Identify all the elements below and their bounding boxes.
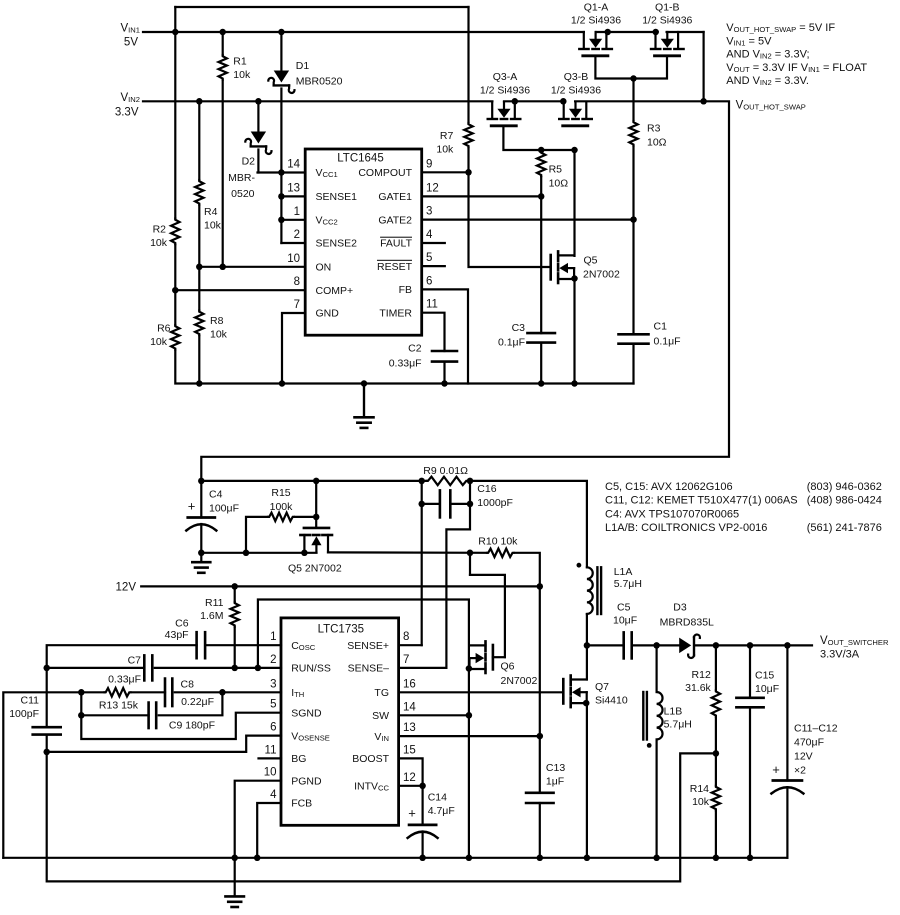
svg-text:Q7: Q7 [595, 681, 609, 693]
svg-text:C5, C15: AVX 12062G106: C5, C15: AVX 12062G106 [605, 481, 733, 493]
svg-text:C5: C5 [617, 602, 631, 614]
svg-text:1/2 Si4936: 1/2 Si4936 [642, 15, 692, 27]
svg-text:2N7002: 2N7002 [583, 269, 620, 281]
svg-text:ON: ON [316, 262, 332, 274]
svg-text:C1: C1 [654, 321, 668, 333]
svg-text:1.6M: 1.6M [200, 610, 223, 622]
svg-text:3.3V: 3.3V [115, 107, 139, 119]
svg-text:16: 16 [403, 678, 416, 690]
svg-text:BG: BG [291, 753, 306, 765]
svg-text:10k: 10k [150, 237, 168, 249]
svg-text:3.3V/3A: 3.3V/3A [820, 649, 860, 661]
svg-text:10Ω: 10Ω [549, 178, 569, 190]
svg-text:1/2 Si4936: 1/2 Si4936 [551, 85, 601, 97]
svg-text:SENSE1: SENSE1 [316, 191, 358, 203]
svg-text:L1A: L1A [614, 566, 633, 578]
svg-text:FAULT: FAULT [380, 238, 412, 250]
svg-text:Q5: Q5 [584, 255, 598, 267]
svg-text:C4: AVX TPS107070R0065: C4: AVX TPS107070R0065 [605, 508, 739, 520]
svg-text:5.7μH: 5.7μH [614, 578, 642, 590]
svg-text:C8: C8 [181, 679, 195, 691]
svg-text:1μF: 1μF [546, 776, 564, 788]
svg-text:(803) 946-0362: (803) 946-0362 [807, 481, 882, 493]
svg-text:COMP+: COMP+ [316, 285, 354, 297]
svg-text:R13 15k: R13 15k [99, 700, 139, 712]
svg-text:COMPOUT: COMPOUT [358, 167, 412, 179]
svg-text:C11, C12: KEMET T510X477(1) 00: C11, C12: KEMET T510X477(1) 006AS [605, 495, 798, 507]
svg-text:SENSE+: SENSE+ [347, 640, 389, 652]
svg-text:BOOST: BOOST [352, 753, 389, 765]
svg-text:1: 1 [270, 631, 276, 643]
svg-text:R12: R12 [692, 669, 711, 681]
svg-text:15: 15 [403, 744, 416, 756]
svg-text:3: 3 [426, 206, 432, 218]
svg-text:11: 11 [426, 299, 438, 311]
svg-text:10k: 10k [210, 329, 228, 341]
svg-text:SGND: SGND [291, 707, 322, 719]
svg-text:12: 12 [403, 772, 416, 784]
svg-text:R2: R2 [153, 224, 167, 236]
svg-text:FCB: FCB [291, 798, 312, 810]
svg-text:14: 14 [403, 701, 416, 713]
svg-text:Q3-A: Q3-A [493, 71, 518, 83]
svg-text:R3: R3 [647, 123, 661, 135]
svg-text:470μF: 470μF [794, 737, 824, 749]
svg-text:C7: C7 [128, 655, 142, 667]
svg-text:R9 0.01Ω: R9 0.01Ω [423, 465, 468, 477]
svg-text:R14: R14 [690, 783, 709, 795]
svg-text:GATE1: GATE1 [378, 191, 412, 203]
svg-text:5.7μH: 5.7μH [664, 719, 692, 731]
svg-text:R5: R5 [549, 164, 563, 176]
svg-text:100k: 100k [270, 501, 294, 513]
svg-text:+: + [772, 762, 780, 777]
svg-text:LTC1735: LTC1735 [318, 624, 364, 636]
svg-text:13: 13 [287, 182, 300, 194]
svg-text:SENSE2: SENSE2 [316, 238, 358, 250]
svg-text:43pF: 43pF [165, 629, 189, 641]
svg-text:0.33μF: 0.33μF [389, 358, 422, 370]
svg-text:8: 8 [294, 276, 300, 288]
svg-text:10μF: 10μF [755, 683, 779, 695]
svg-text:5: 5 [270, 699, 276, 711]
svg-text:10Ω: 10Ω [647, 137, 667, 149]
svg-text:8: 8 [403, 631, 409, 643]
svg-text:+: + [188, 499, 196, 514]
svg-text:MBR0520: MBR0520 [296, 76, 343, 88]
svg-text:FB: FB [399, 284, 412, 296]
svg-text:C11: C11 [21, 695, 40, 707]
svg-text:C3: C3 [512, 322, 526, 334]
svg-text:C14: C14 [428, 792, 447, 804]
svg-text:RUN/SS: RUN/SS [291, 663, 331, 675]
svg-text:4.7μF: 4.7μF [428, 805, 455, 817]
svg-text:0.1μF: 0.1μF [654, 336, 681, 348]
svg-text:D1: D1 [296, 60, 310, 72]
svg-text:4: 4 [270, 789, 277, 801]
svg-text:10k: 10k [150, 336, 168, 348]
svg-text:Q6: Q6 [501, 661, 515, 673]
svg-text:5: 5 [426, 252, 432, 264]
svg-text:R1: R1 [233, 56, 247, 68]
svg-text:0.33μF: 0.33μF [108, 674, 141, 686]
svg-text:Si4410: Si4410 [595, 695, 628, 707]
svg-text:C6: C6 [175, 618, 189, 630]
svg-text:SENSE–: SENSE– [348, 663, 390, 675]
svg-text:1000pF: 1000pF [477, 497, 513, 509]
svg-text:10k: 10k [233, 69, 251, 81]
svg-text:0.22μF: 0.22μF [181, 696, 214, 708]
svg-text:(561) 241-7876: (561) 241-7876 [807, 522, 882, 534]
svg-text:SW: SW [372, 710, 389, 722]
svg-text:1/2 Si4936: 1/2 Si4936 [571, 15, 621, 27]
svg-text:R11: R11 [205, 597, 224, 609]
svg-text:12: 12 [426, 182, 439, 194]
svg-text:5V: 5V [124, 37, 138, 49]
svg-text:C2: C2 [408, 343, 422, 355]
svg-text:GATE2: GATE2 [378, 214, 412, 226]
svg-text:R8: R8 [210, 315, 224, 327]
svg-text:10k: 10k [692, 796, 710, 808]
svg-text:6: 6 [426, 275, 432, 287]
svg-text:Q5 2N7002: Q5 2N7002 [288, 563, 342, 575]
svg-text:Q1-A: Q1-A [584, 2, 609, 14]
svg-text:100pF: 100pF [9, 708, 39, 720]
svg-text:C4: C4 [209, 489, 223, 501]
svg-text:Q1-B: Q1-B [655, 2, 680, 14]
svg-text:(408) 986-0424: (408) 986-0424 [807, 495, 882, 507]
svg-text:C11–C12: C11–C12 [794, 723, 838, 735]
svg-text:R6: R6 [157, 323, 171, 335]
svg-text:0.1μF: 0.1μF [498, 337, 525, 349]
svg-text:R10 10k: R10 10k [478, 536, 518, 548]
svg-text:R15: R15 [271, 487, 290, 499]
svg-text:C15: C15 [755, 670, 774, 682]
svg-text:C16: C16 [477, 483, 496, 495]
svg-text:3: 3 [270, 678, 276, 690]
svg-text:MBR-: MBR- [228, 172, 255, 184]
svg-text:MBRD835L: MBRD835L [660, 617, 714, 629]
svg-text:L1B: L1B [664, 706, 683, 718]
svg-text:D3: D3 [673, 602, 687, 614]
svg-text:L1A/B: COILTRONICS VP2-0016: L1A/B: COILTRONICS VP2-0016 [605, 522, 767, 534]
svg-text:11: 11 [265, 744, 277, 756]
svg-text:100μF: 100μF [209, 503, 239, 515]
svg-text:13: 13 [403, 722, 416, 734]
svg-text:LTC1645: LTC1645 [337, 153, 383, 165]
svg-text:10: 10 [287, 253, 300, 265]
svg-text:4: 4 [426, 229, 433, 241]
svg-text:C13: C13 [546, 762, 565, 774]
svg-text:7: 7 [403, 654, 409, 666]
svg-text:RESET: RESET [377, 261, 413, 273]
svg-text:PGND: PGND [291, 775, 322, 787]
svg-text:12V: 12V [116, 582, 137, 594]
svg-text:C9 180pF: C9 180pF [169, 720, 215, 732]
svg-text:2: 2 [270, 654, 276, 666]
svg-text:R4: R4 [204, 206, 218, 218]
svg-text:0520: 0520 [231, 188, 255, 200]
svg-text:×2: ×2 [794, 765, 806, 777]
svg-text:10μF: 10μF [613, 615, 637, 627]
svg-text:1: 1 [294, 206, 300, 218]
svg-text:R7: R7 [440, 130, 454, 142]
svg-text:TG: TG [374, 687, 389, 699]
svg-text:12V: 12V [794, 751, 813, 763]
svg-text:9: 9 [426, 158, 432, 170]
svg-text:31.6k: 31.6k [685, 682, 711, 694]
svg-text:1/2 Si4936: 1/2 Si4936 [480, 85, 530, 97]
svg-text:7: 7 [294, 299, 300, 311]
svg-text:10: 10 [264, 767, 277, 779]
svg-text:D2: D2 [242, 156, 256, 168]
svg-text:2N7002: 2N7002 [501, 675, 538, 687]
svg-text:2: 2 [294, 229, 300, 241]
svg-text:GND: GND [316, 308, 340, 320]
svg-text:+: + [408, 806, 416, 821]
svg-text:Q3-B: Q3-B [564, 71, 589, 83]
svg-text:VIN1 = 5V: VIN1 = 5V [726, 35, 772, 47]
svg-text:10k: 10k [204, 220, 222, 232]
svg-text:14: 14 [287, 159, 300, 171]
svg-text:TIMER: TIMER [379, 307, 412, 319]
svg-text:6: 6 [270, 722, 276, 734]
svg-text:10k: 10k [436, 144, 454, 156]
